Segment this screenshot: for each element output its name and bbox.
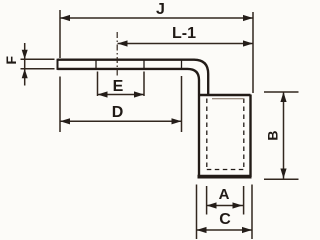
F arrow down (above bar) [22,50,28,60]
D arrow right [172,118,182,124]
B dimension line [283,92,285,179]
J arrow left [60,15,70,21]
barrel (wire barrel rectangle) [198,95,252,178]
D extension line right [181,76,183,132]
dimension J [60,10,253,93]
svg-text:C: C [219,211,231,228]
dimension F (bar thickness) [21,43,55,86]
bar bottom edge with inner bend [58,69,200,177]
C arrow right [242,227,252,233]
L-1 dimension line [118,43,254,45]
J / L-1 extension line right [252,12,254,93]
F extension line upper [21,58,55,60]
bar top edge with outer bend [58,60,209,94]
svg-text:L-1: L-1 [172,25,196,42]
J extension line left [59,10,61,58]
E arrow left [98,91,108,97]
D extension line left [59,77,61,133]
A arrow left [207,202,217,208]
L-1 arrow right [243,40,253,46]
B arrow up [280,92,286,102]
svg-text:E: E [113,78,124,95]
dimension B (barrel height, right side) [264,92,299,179]
barrel bore dashed left [206,99,208,170]
barrel bottom edge [198,175,252,179]
bar seam 1 [95,60,97,69]
B arrow down [280,169,286,179]
C extension line right [251,185,253,240]
D arrow left [60,118,70,124]
svg-text:F: F [3,55,19,64]
C extension line left [196,185,198,240]
dimension A (bore width) [207,186,244,215]
barrel bore dashed right [243,99,245,170]
part outline: bent terminal tongue (horizontal bar) [58,59,209,177]
F extension line lower [21,68,55,70]
svg-text:A: A [219,186,230,203]
svg-text:D: D [112,104,124,121]
barrel top edge [199,94,251,97]
F dimension line [24,43,26,86]
J dimension line [60,17,253,19]
E extension line left [97,72,99,97]
bar seam 2 [143,60,145,69]
E dimension line [98,94,145,96]
dimension D [60,76,182,132]
svg-text:J: J [156,1,165,18]
E arrow right [134,91,144,97]
B extension line top [264,91,299,93]
L-1 arrow left [118,40,128,46]
hole centerline (dash-dot) [116,32,118,77]
F arrow up (below bar) [22,69,28,79]
dimension C (barrel width) [197,185,253,240]
A arrow right [233,202,243,208]
A dimension line [207,205,244,207]
barrel right edge [249,95,251,178]
A extension line right [243,186,245,215]
bar seam 3 [181,60,183,69]
barrel bore dashed bottom [207,169,244,171]
C arrow left [197,227,207,233]
dimension E [98,72,145,97]
barrel bore top faint line [212,98,244,100]
B extension line bottom [264,178,299,180]
svg-text:B: B [265,130,281,140]
E extension line right [143,72,145,97]
D dimension line [60,120,182,122]
J arrow right [243,15,253,21]
C dimension line [197,229,253,231]
bar left end cap [57,59,59,70]
A extension line left [206,186,208,215]
